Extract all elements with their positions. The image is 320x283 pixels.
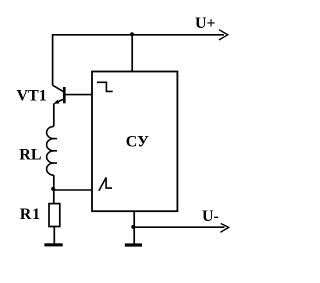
arrowhead U+ [219, 30, 228, 40]
inductor RL coil arcs [47, 126, 54, 175]
wire from top rail down to CU box [131, 35, 133, 72]
wire emitter vertical [53, 103, 55, 126]
wire R1 to ground [53, 227, 55, 244]
wire U+ top rail [53, 34, 224, 36]
node junction on top rail [130, 32, 134, 36]
transistor VT1 emitter lead with arrow [55, 99, 63, 103]
wire junction to CU box lower input [54, 189, 92, 191]
wire collector vertical [52, 34, 54, 85]
ground under R1 [44, 243, 62, 246]
svg-text:U+: U+ [195, 15, 216, 32]
node junction U- net [131, 225, 135, 229]
op box CU (control unit) [92, 72, 177, 212]
step (falling edge) input symbol [97, 82, 113, 91]
transistor VT1 collector lead [53, 85, 64, 92]
svg-text:U-: U- [202, 208, 219, 225]
wire base to CU box [66, 94, 92, 96]
node junction emitter net [51, 187, 55, 191]
svg-text:RL: RL [19, 146, 41, 163]
svg-text:VT1: VT1 [17, 87, 47, 104]
transistor VT1 base bar [63, 87, 66, 103]
wire coil to R1 [53, 175, 55, 203]
inductor RL junction ticks [53, 138, 57, 140]
svg-text:СУ: СУ [126, 133, 149, 150]
wire CU box bottom to ground [133, 211, 135, 243]
wire U- rail [133, 226, 224, 228]
arrowhead U- [220, 224, 228, 233]
ground under CU box [125, 243, 142, 246]
resistor R1 [49, 204, 60, 227]
sawtooth (ramp) input symbol [99, 178, 112, 191]
svg-text:R1: R1 [20, 206, 41, 223]
